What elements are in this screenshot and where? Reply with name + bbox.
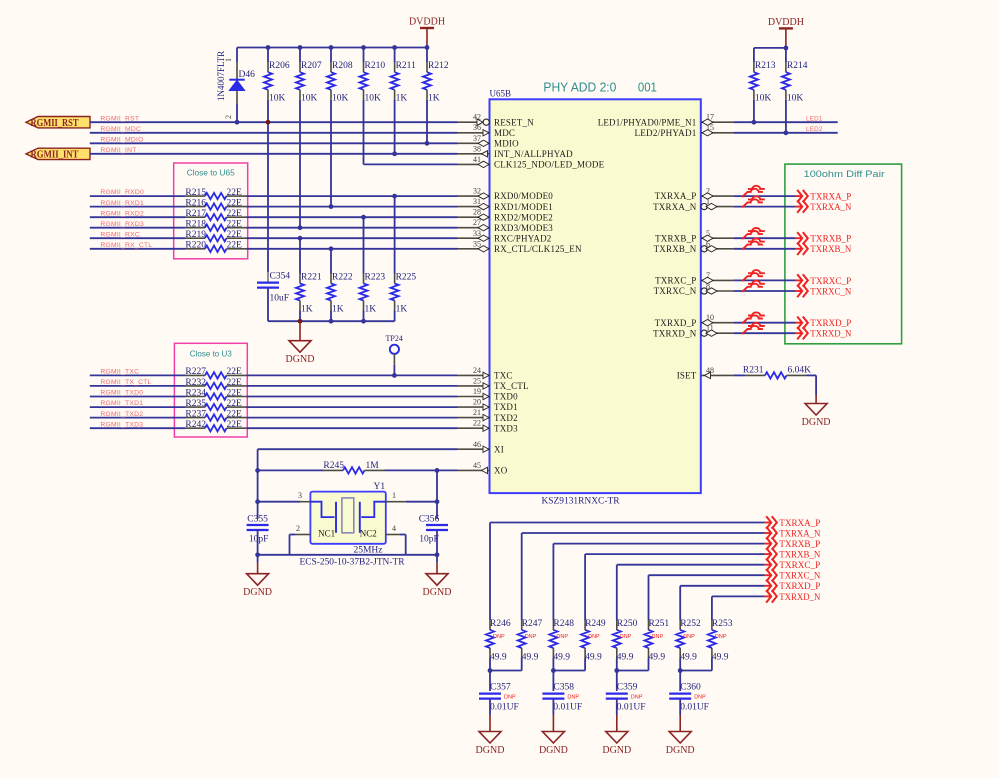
diode D46 1N4007FLTR — [236, 48, 238, 63]
wire TXRXC_P (termination) — [617, 564, 765, 566]
resistor R234 22E — [185, 396, 205, 398]
pin 33 RXC/PHYAD2 (left) — [458, 237, 490, 239]
capacitor C360 0.01UF DNP — [679, 671, 681, 692]
port chevron TXRXA_N (bottom) — [765, 532, 771, 534]
diff pair marker TXRXA_N — [748, 196, 765, 199]
svg-text:TXC: TXC — [494, 371, 513, 381]
resistor R237 22E — [185, 417, 205, 419]
wire RGMII_TX_CTL — [90, 385, 185, 387]
svg-text:TXRXD_N: TXRXD_N — [810, 330, 851, 340]
resistor R217 22E — [185, 216, 205, 218]
pin 35 RX_CTL/CLK125_EN (left) — [458, 248, 490, 250]
svg-text:DNP: DNP — [620, 634, 632, 640]
svg-text:22: 22 — [473, 419, 481, 428]
junction TP24 on TXC — [392, 373, 397, 378]
svg-text:DVDDH: DVDDH — [768, 17, 804, 28]
note box Close to U3 — [174, 343, 247, 437]
pin 48 ISET (right) — [701, 374, 734, 376]
svg-text:D46: D46 — [239, 70, 256, 80]
svg-text:0.01UF: 0.01UF — [617, 703, 646, 713]
wire R207 to RXD3 — [299, 100, 301, 228]
svg-text:RGMII_MDIO: RGMII_MDIO — [100, 137, 143, 144]
resistor R231 6.04K — [745, 374, 765, 376]
svg-text:DGND: DGND — [243, 587, 272, 598]
svg-text:49.9: 49.9 — [680, 653, 697, 663]
wire TXRXA_P (termination) — [490, 522, 765, 524]
wire XI — [258, 448, 458, 450]
svg-text:R221: R221 — [301, 273, 322, 283]
svg-text:TXRXA_P: TXRXA_P — [779, 519, 820, 529]
wire CLK125 strap from R210 — [363, 100, 365, 164]
svg-text:TXRXB_N: TXRXB_N — [654, 244, 697, 254]
resistor R227 22E — [185, 374, 205, 376]
pin 8 TXRXC_N (right) — [701, 290, 734, 292]
svg-text:Close to U3: Close to U3 — [190, 349, 232, 359]
resistor R247 49.9 DNP — [521, 620, 523, 630]
pin 7 TXRXC_P (right) — [701, 279, 734, 281]
svg-text:C358: C358 — [553, 683, 574, 693]
svg-text:24: 24 — [473, 366, 481, 375]
svg-text:DNP: DNP — [567, 694, 579, 700]
svg-text:MDIO: MDIO — [494, 139, 519, 149]
ground DGND (C360) — [679, 715, 681, 732]
svg-text:33: 33 — [473, 229, 481, 238]
port chevron TXRXB_P (bottom) — [765, 543, 771, 545]
wire R211 to RGMII_INT — [394, 100, 396, 154]
svg-text:R217: R217 — [185, 209, 206, 219]
wire TXRXB_N — [733, 248, 795, 250]
svg-text:R222: R222 — [332, 273, 353, 283]
wire RGMII_RXD0 — [90, 195, 185, 197]
svg-text:Y1: Y1 — [374, 482, 386, 492]
wire TXRXA_N (termination) — [522, 532, 765, 534]
svg-text:TXRXB_N: TXRXB_N — [779, 551, 820, 561]
svg-text:37: 37 — [473, 134, 481, 143]
svg-text:49.9: 49.9 — [585, 653, 602, 663]
wire R208 to RXD1 — [330, 100, 332, 207]
svg-text:RGMII_INT: RGMII_INT — [31, 149, 79, 160]
svg-text:R212: R212 — [428, 61, 449, 71]
svg-text:KSZ9131RNXC-TR: KSZ9131RNXC-TR — [542, 496, 620, 506]
svg-text:TXRXC_N: TXRXC_N — [810, 287, 851, 297]
resistor R211 1K — [394, 48, 396, 63]
svg-text:TX_CTL: TX_CTL — [494, 381, 529, 391]
pin 42 RESET_N (left) — [458, 121, 490, 123]
junction C359 join — [614, 668, 619, 673]
pin 10 TXRXD_P (right) — [701, 322, 734, 324]
diff pair marker TXRXB_P — [748, 228, 765, 231]
svg-text:0.01UF: 0.01UF — [490, 703, 519, 713]
capacitor C356 10pF — [436, 502, 438, 519]
svg-text:R211: R211 — [396, 61, 416, 71]
wire RGMII_MDC — [90, 132, 458, 134]
port chevron TXRXD_N (bottom) — [765, 595, 771, 597]
op-amp U65B KSZ9131RNXC-TR main IC body — [490, 99, 701, 493]
svg-text:TXRXD_P: TXRXD_P — [779, 582, 820, 592]
svg-text:22E: 22E — [227, 409, 243, 419]
wire top pull-up rail — [237, 47, 427, 49]
svg-text:22E: 22E — [227, 367, 243, 377]
wire LED1 — [733, 121, 837, 123]
svg-text:1K: 1K — [396, 94, 408, 104]
pin 17 LED1/PHYAD0/PME_N1 (right) — [701, 121, 734, 123]
svg-text:RXD2/MODE2: RXD2/MODE2 — [494, 212, 553, 222]
svg-text:1: 1 — [224, 58, 233, 62]
svg-text:22E: 22E — [227, 198, 243, 208]
pin 46 XI (left) — [458, 448, 490, 450]
svg-text:DVDDH: DVDDH — [409, 17, 445, 28]
svg-text:TXD3: TXD3 — [494, 423, 518, 433]
svg-text:DNP: DNP — [631, 694, 643, 700]
pin 1 TXRXA_N (right) — [701, 206, 734, 208]
resistor R216 22E — [185, 206, 205, 208]
port chevron TXRXB_N — [796, 248, 802, 250]
resistor R212 1K — [426, 48, 428, 63]
port chevron TXRXD_P (bottom) — [765, 585, 771, 587]
svg-text:41: 41 — [473, 155, 481, 164]
svg-text:R251: R251 — [649, 619, 670, 629]
wire RGMII_MDIO — [90, 142, 458, 144]
svg-text:TXRXD_N: TXRXD_N — [779, 593, 820, 603]
svg-text:R245: R245 — [323, 461, 344, 471]
port RGMII_RST — [26, 117, 90, 128]
svg-text:R248: R248 — [553, 619, 574, 629]
svg-text:2: 2 — [224, 115, 233, 119]
svg-text:TXRXD_N: TXRXD_N — [653, 328, 697, 338]
pin 27 RXD3/MODE3 (left) — [458, 227, 490, 229]
svg-text:RXC/PHYAD2: RXC/PHYAD2 — [494, 233, 552, 243]
wire TXRXD_P (termination) — [680, 585, 764, 587]
svg-text:ECS-250-10-37B2-JTN-TR: ECS-250-10-37B2-JTN-TR — [300, 558, 406, 568]
svg-text:RGMII_RX_CTL: RGMII_RX_CTL — [100, 242, 152, 249]
svg-text:DGND: DGND — [666, 745, 695, 756]
svg-text:10K: 10K — [269, 94, 286, 104]
resistor R253 49.9 DNP — [711, 620, 713, 630]
svg-text:3: 3 — [298, 491, 302, 500]
svg-text:1K: 1K — [365, 305, 377, 315]
pin 6 TXRXB_N (right) — [701, 248, 734, 250]
svg-text:10K: 10K — [787, 94, 804, 104]
svg-text:22E: 22E — [227, 220, 243, 230]
svg-text:TXRXC_P: TXRXC_P — [810, 277, 851, 287]
svg-text:DGND: DGND — [423, 587, 452, 598]
resistor R219 22E — [185, 237, 205, 239]
svg-text:10K: 10K — [365, 94, 382, 104]
port chevron TXRXD_N — [796, 332, 802, 334]
svg-text:1M: 1M — [366, 461, 380, 471]
svg-text:R210: R210 — [365, 61, 386, 71]
svg-text:RGMII_TXC: RGMII_TXC — [100, 369, 139, 376]
svg-text:49.9: 49.9 — [649, 653, 666, 663]
wire RGMII_RXD1 — [90, 206, 185, 208]
svg-text:10K: 10K — [301, 94, 318, 104]
diff pair marker TXRXD_P — [748, 312, 765, 315]
svg-text:R231: R231 — [743, 366, 764, 376]
wire LED pull-up rail — [754, 47, 786, 49]
svg-text:TXRXB_P: TXRXB_P — [810, 235, 851, 245]
pin 19 TXD0 (left) — [458, 396, 490, 398]
pin 31 RXD1/MODE1 (left) — [458, 206, 490, 208]
svg-text:R242: R242 — [185, 420, 206, 430]
pin 25 TX_CTL (left) — [458, 385, 490, 387]
svg-text:36: 36 — [473, 123, 481, 132]
svg-text:C354: C354 — [270, 272, 291, 282]
svg-text:C359: C359 — [617, 683, 638, 693]
svg-text:TXRXA_N: TXRXA_N — [653, 202, 697, 212]
svg-text:R219: R219 — [185, 230, 206, 240]
svg-text:DNP: DNP — [694, 694, 706, 700]
pin 41 CLK125_NDO/LED_MODE (left) — [458, 163, 490, 165]
svg-text:RXD3/MODE3: RXD3/MODE3 — [494, 223, 553, 233]
svg-text:R253: R253 — [712, 619, 733, 629]
resistor R252 49.9 DNP — [679, 620, 681, 630]
svg-text:LED1: LED1 — [806, 115, 823, 122]
svg-text:22E: 22E — [227, 378, 243, 388]
wire RGMII_TXD3 — [90, 427, 185, 429]
wire RGMII_RXC — [90, 237, 185, 239]
svg-text:49.9: 49.9 — [490, 653, 507, 663]
svg-text:RGMII_RXD0: RGMII_RXD0 — [100, 189, 144, 196]
svg-text:DNP: DNP — [556, 634, 568, 640]
svg-text:RGMII_RXD2: RGMII_RXD2 — [100, 210, 144, 217]
svg-text:ISET: ISET — [677, 371, 697, 381]
svg-text:2: 2 — [296, 524, 300, 533]
svg-text:49.9: 49.9 — [553, 653, 570, 663]
ground DGND (C359) — [616, 715, 618, 732]
svg-text:22E: 22E — [227, 420, 243, 430]
svg-text:R216: R216 — [185, 198, 206, 208]
wire RGMII_TXD0 — [90, 396, 185, 398]
resistor R232 22E — [185, 385, 205, 387]
port chevron TXRXC_P — [796, 279, 802, 281]
wire crystal pin 4 (NC2) — [386, 534, 400, 536]
junction D46 on RGMII_RST — [235, 120, 240, 125]
svg-text:R206: R206 — [269, 61, 290, 71]
svg-text:22E: 22E — [227, 241, 243, 251]
svg-text:R208: R208 — [332, 61, 353, 71]
pin 11 TXRXD_N (right) — [701, 332, 734, 334]
svg-text:DGND: DGND — [802, 417, 831, 428]
pin 36 MDC (left) — [458, 132, 490, 134]
capacitor C355 10pF — [257, 502, 259, 519]
resistor R208 10K — [330, 48, 332, 63]
svg-text:Close to U65: Close to U65 — [187, 168, 235, 178]
svg-text:TXRXA_N: TXRXA_N — [779, 529, 820, 539]
svg-text:RGMII_RXC: RGMII_RXC — [100, 231, 140, 238]
svg-text:TXRXD_P: TXRXD_P — [655, 318, 697, 328]
wire RGMII_RST — [90, 121, 458, 123]
svg-text:TXD2: TXD2 — [494, 413, 518, 423]
svg-text:TXRXC_P: TXRXC_P — [779, 561, 820, 571]
svg-text:LED2/PHYAD1: LED2/PHYAD1 — [635, 128, 697, 138]
svg-text:R220: R220 — [185, 241, 206, 251]
svg-text:R232: R232 — [185, 378, 206, 388]
testpoint TP24 — [390, 345, 399, 354]
note box Close to U65 — [174, 163, 248, 259]
svg-text:21: 21 — [473, 408, 481, 417]
resistor R215 22E — [185, 195, 205, 197]
ground DGND (strap rail) — [299, 321, 301, 341]
svg-text:49.9: 49.9 — [712, 653, 729, 663]
svg-text:0.01UF: 0.01UF — [553, 703, 582, 713]
svg-text:RXD0/MODE0: RXD0/MODE0 — [494, 191, 553, 201]
svg-text:R235: R235 — [185, 399, 206, 409]
resistor R207 10K — [299, 48, 301, 63]
svg-text:10pF: 10pF — [249, 535, 269, 545]
junction C360 join — [678, 668, 683, 673]
junction dots on pull-up rail — [266, 45, 271, 50]
svg-text:DNP: DNP — [715, 634, 727, 640]
svg-text:XO: XO — [494, 466, 508, 476]
svg-text:XI: XI — [494, 444, 504, 454]
svg-text:TXRXB_P: TXRXB_P — [779, 540, 820, 550]
svg-text:DGND: DGND — [539, 745, 568, 756]
svg-text:TXRXC_P: TXRXC_P — [655, 276, 696, 286]
pin 37 MDIO (left) — [458, 142, 490, 144]
wire crystal pin 1 — [386, 501, 406, 503]
svg-text:6.04K: 6.04K — [788, 366, 812, 376]
svg-text:32: 32 — [473, 187, 481, 196]
wire TXRXB_N (termination) — [585, 553, 765, 555]
svg-text:10K: 10K — [332, 94, 349, 104]
port chevron TXRXB_P — [796, 237, 802, 239]
wire crystal pin 3 — [258, 501, 300, 503]
wire RGMII_TXD1 — [90, 406, 185, 408]
svg-text:TXRXD_P: TXRXD_P — [810, 319, 851, 329]
wire RGMII_RXD3 — [90, 227, 185, 229]
resistor R242 22E — [185, 427, 205, 429]
svg-text:R247: R247 — [522, 619, 543, 629]
svg-text:RXD1/MODE1: RXD1/MODE1 — [494, 202, 553, 212]
svg-text:DNP: DNP — [588, 634, 600, 640]
svg-text:TXD1: TXD1 — [494, 402, 518, 412]
svg-text:1: 1 — [392, 491, 396, 500]
diff pair marker TXRXB_N — [748, 239, 765, 242]
svg-text:1K: 1K — [332, 305, 344, 315]
svg-text:10pF: 10pF — [419, 535, 439, 545]
svg-text:R234: R234 — [185, 388, 206, 398]
svg-text:RGMII_RST: RGMII_RST — [31, 118, 79, 129]
svg-text:TXRXB_P: TXRXB_P — [655, 233, 696, 243]
svg-text:PHY ADD 2:0: PHY ADD 2:0 — [543, 81, 616, 95]
svg-text:TXRXC_N: TXRXC_N — [779, 572, 820, 582]
junction R206/C354 on RGMII_RST — [266, 120, 271, 125]
resistor R235 22E — [185, 406, 205, 408]
svg-text:22E: 22E — [227, 209, 243, 219]
svg-text:DNP: DNP — [525, 634, 537, 640]
svg-text:RGMII_INT: RGMII_INT — [100, 147, 136, 154]
svg-text:100ohm Diff Pair: 100ohm Diff Pair — [804, 169, 885, 180]
pin 22 TXD3 (left) — [458, 427, 490, 429]
svg-text:DGND: DGND — [286, 354, 315, 365]
svg-text:R223: R223 — [365, 273, 386, 283]
wire RGMII_TXD2 — [90, 417, 185, 419]
wire ISET to ground — [807, 374, 817, 376]
svg-text:28: 28 — [473, 208, 481, 217]
port chevron TXRXA_P (bottom) — [765, 522, 771, 524]
wire TXRXC_N — [733, 290, 795, 292]
svg-text:DNP: DNP — [504, 694, 516, 700]
svg-text:U65B: U65B — [490, 89, 512, 99]
svg-text:R213: R213 — [755, 61, 776, 71]
resistor R248 49.9 DNP — [552, 620, 554, 630]
svg-text:22E: 22E — [227, 188, 243, 198]
crystal Y1 25MHz ECS-250-10-37B2-JTN-TR — [310, 492, 385, 544]
svg-text:49.9: 49.9 — [522, 653, 539, 663]
svg-text:RGMII_RXD1: RGMII_RXD1 — [100, 200, 144, 207]
port RGMII_INT — [26, 148, 90, 159]
pin 32 RXD0/MODE0 (left) — [458, 195, 490, 197]
pin 5 TXRXB_P (right) — [701, 237, 734, 239]
wire TXRXA_P — [733, 195, 795, 197]
svg-text:RGMII_MDC: RGMII_MDC — [100, 126, 141, 133]
diff pair marker TXRXD_N — [748, 323, 765, 326]
resistor R206 10K — [267, 48, 269, 63]
pin 20 TXD1 (left) — [458, 406, 490, 408]
resistor R225 1K — [392, 194, 397, 199]
svg-text:DGND: DGND — [602, 745, 631, 756]
port chevron TXRXA_P — [796, 195, 802, 197]
resistor R214 10K — [785, 48, 787, 62]
svg-text:DNP: DNP — [493, 634, 505, 640]
wire crystal right leg — [436, 470, 438, 501]
svg-text:RGMII_TXD3: RGMII_TXD3 — [100, 421, 143, 428]
pin 38 INT_N/ALLPHYAD (left) — [458, 153, 490, 155]
svg-text:1K: 1K — [396, 305, 408, 315]
wire RGMII_RXD2 — [90, 216, 185, 218]
svg-text:20: 20 — [473, 398, 481, 407]
resistor R221 1K — [298, 236, 303, 241]
wire TXRXD_P — [733, 322, 795, 324]
junction C357 join — [488, 668, 493, 673]
resistor R220 22E — [185, 248, 205, 250]
resistor R222 1K — [329, 246, 334, 251]
wire RGMII_INT — [90, 153, 458, 155]
resistor R223 1K — [361, 215, 366, 220]
resistor R245 1M — [258, 469, 323, 471]
capacitor C358 0.01UF DNP — [552, 671, 554, 692]
svg-text:R207: R207 — [301, 61, 322, 71]
svg-text:4: 4 — [392, 524, 396, 533]
svg-text:RGMII_TXD2: RGMII_TXD2 — [100, 411, 143, 418]
svg-text:0.01UF: 0.01UF — [680, 703, 709, 713]
diff pair marker TXRXA_P — [748, 186, 765, 189]
wire TXRXD_N — [733, 332, 795, 334]
capacitor C357 0.01UF DNP — [489, 671, 491, 692]
port chevron TXRXC_N — [796, 290, 802, 292]
svg-text:R225: R225 — [396, 273, 417, 283]
resistor R210 10K — [363, 48, 365, 63]
wire RGMII_RX_CTL — [90, 248, 185, 250]
resistor R246 49.9 DNP — [489, 620, 491, 630]
diff pair marker TXRXC_P — [748, 270, 765, 273]
svg-text:RGMII_TXD1: RGMII_TXD1 — [100, 400, 143, 407]
svg-text:TXRXA_P: TXRXA_P — [655, 191, 697, 201]
diff pair marker TXRXC_N — [748, 281, 765, 284]
svg-text:DGND: DGND — [476, 745, 505, 756]
resistor R250 49.9 DNP — [616, 620, 618, 630]
wire XO — [437, 469, 458, 471]
wire ground rail under straps — [268, 320, 395, 322]
resistor R218 22E — [185, 227, 205, 229]
junction DGND on strap rail — [298, 319, 303, 324]
svg-text:C360: C360 — [680, 683, 701, 693]
svg-text:25: 25 — [473, 376, 481, 385]
resistor R213 10K — [753, 48, 755, 62]
wire ISET — [733, 374, 745, 376]
ground DGND (left of crystal) — [257, 555, 259, 563]
wire LED2 — [733, 132, 837, 134]
